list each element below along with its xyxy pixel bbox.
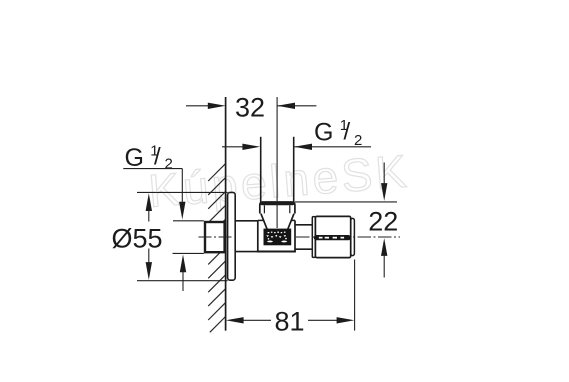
svg-text:G: G: [314, 119, 333, 147]
top outlet pipe: [261, 137, 294, 203]
thread top/bottom extension stubs: [173, 220, 204, 222]
svg-text:/: /: [344, 119, 351, 146]
wall-side rosette (escutcheon): [228, 192, 236, 280]
watermark KupelneSK: [147, 145, 412, 217]
knurled logo box: [265, 230, 291, 245]
G 1/2 left label: [125, 143, 173, 173]
dim 22: top extension line from nut: [295, 201, 397, 203]
funnel cone between nut and body: [261, 214, 294, 230]
wall hatching: [208, 164, 225, 333]
svg-text:81: 81: [274, 307, 304, 337]
svg-text:22: 22: [368, 207, 398, 237]
dim D55: extension lines: [137, 191, 228, 193]
svg-text:Ø55: Ø55: [111, 223, 162, 253]
horizontal center line: [199, 236, 232, 238]
horizontal inlet tube: [235, 221, 258, 252]
dim 22: arrows outside: [383, 163, 385, 187]
pipe axis / 32 right extension line: [276, 97, 278, 228]
dim 81: right extension line: [354, 260, 356, 331]
compression nut: [260, 202, 295, 214]
handle knob: [312, 216, 354, 257]
inlet thread square in wall: [205, 222, 225, 252]
dim D55: vertical dimension line with arrows: [148, 207, 150, 222]
dim 32: dimension line with outside arrows: [186, 105, 316, 107]
G 1/2 left underline + leader arrow down to thread: [123, 168, 182, 170]
svg-text:/: /: [154, 144, 161, 171]
wall line (also ext line for 32 and 81): [225, 97, 227, 331]
svg-text:2: 2: [165, 156, 173, 173]
G 1/2 top-right label: [314, 117, 362, 149]
neck between body and handle: [295, 225, 312, 249]
dim 81: dimension line with inside arrows: [226, 317, 244, 323]
svg-text:G: G: [125, 144, 144, 172]
handle grip slot: [314, 235, 351, 240]
thread lower arrow up: [180, 254, 186, 272]
G 1/2 top-right leader with arrows to pipe: [295, 146, 371, 148]
valve body cube: [257, 220, 296, 251]
svg-text:32: 32: [235, 92, 265, 122]
